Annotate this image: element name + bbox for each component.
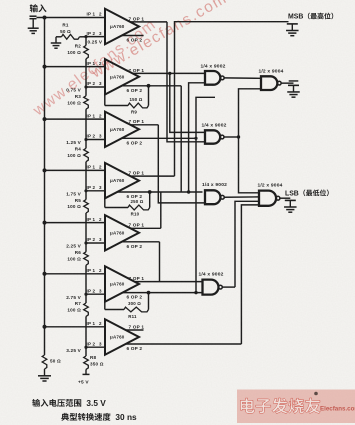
wire R8 to +5V	[85, 369, 87, 374]
node ladder tap U6	[84, 293, 87, 296]
wire V10 U2 OP1 branch down to G2 upper	[170, 73, 205, 132]
resistor R1 50Ω	[56, 36, 62, 38]
caption line 2	[61, 413, 69, 421]
node bus junction comparator U6	[43, 272, 47, 276]
node bus junction comparator U4	[43, 168, 47, 172]
wire ladder segment below R7	[85, 316, 87, 347]
wire U4 OP2 to gate G3	[117, 191, 202, 193]
node U2 OP2 junction R9	[147, 84, 151, 88]
node input bus junction	[43, 16, 47, 20]
wire ladder tap 1.25 V to U3 IP2	[86, 139, 105, 141]
wire G1 output to G5	[224, 77, 261, 79]
wire G3 output to G6	[224, 196, 259, 198]
wire ladder tap 1.75 V to U4 IP2	[86, 190, 105, 192]
resistor R2 100Ω	[84, 45, 89, 58]
wire V3 U3 OP1 down to G3 lower	[158, 125, 205, 203]
op-amp U4 μA760 comparator	[105, 163, 139, 198]
op-amp U2 μA760 comparator	[105, 59, 139, 94]
scan noise overlay	[0, 0, 1, 1]
terminal MSB with ground	[287, 23, 298, 25]
resistor R9 150Ω feedback U2	[148, 86, 150, 106]
wire G2 output to V12	[224, 136, 239, 138]
wire bus to U4 IP1	[45, 169, 106, 171]
caption line 1	[32, 399, 40, 407]
input terminal	[30, 15, 37, 17]
node ladder tap U7	[84, 346, 87, 349]
ground reference R1	[55, 37, 57, 43]
node ladder tap U1	[84, 35, 87, 38]
wire ladder tap 0.25 V to U1 IP2	[86, 36, 105, 38]
wire input to comparator U1 IP1	[37, 17, 106, 19]
wire ladder segment below R5	[85, 213, 87, 243]
wire bus to U3 IP1	[45, 118, 106, 120]
wire V9 U7 OP2 up to G6	[241, 205, 259, 344]
wire U3 OP1 output	[130, 124, 158, 126]
terminal output bit2 with ground	[289, 80, 299, 82]
node ladder tap U5	[84, 241, 87, 244]
node bus junction comparator U3	[43, 117, 47, 121]
wire bus to U5 IP1	[45, 222, 106, 224]
wire U3 OP2 output	[122, 137, 196, 139]
logic gate G5 1/2x9004	[261, 76, 277, 90]
watermark box 电子发烧友	[237, 390, 355, 424]
resistor R11 300Ω feedback U6	[148, 293, 150, 310]
resistor R8 350Ω	[84, 356, 89, 369]
wire G4 output to V11	[222, 286, 235, 288]
wire ladder segment above R3	[85, 87, 87, 96]
ground input termination	[38, 376, 51, 381]
resistor R6 100Ω	[84, 252, 89, 265]
wire ladder tap 2.25 V to U5 IP2	[86, 242, 105, 244]
resistor 50Ω input termination	[42, 355, 47, 369]
wire 50Ω to ground	[44, 369, 46, 376]
op-amp U3 μA760 comparator	[105, 112, 139, 147]
op-amp U6 μA760 comparator	[105, 266, 139, 301]
wire ladder segment above R4	[85, 140, 87, 149]
terminal LSB output with ground	[285, 199, 296, 201]
wire input bus vertical	[44, 18, 46, 356]
node ladder tap U3	[84, 138, 87, 141]
wire bus to U2 IP1	[45, 66, 106, 68]
node G2 output junction	[237, 135, 240, 138]
wire V8 upper elbow	[196, 97, 215, 292]
wire V4 U5 OP1 up to G3 upper	[160, 192, 162, 228]
wire ladder segment below R4	[85, 162, 87, 191]
node bus junction comparator U5	[43, 221, 47, 225]
wire V2 MSB riser from U4 OP1	[175, 22, 289, 176]
op-amp U7 μA760 comparator	[105, 319, 139, 354]
wire V6 U2 OP2 down to U4 OP2 net	[180, 86, 182, 192]
logic gate G1 1/4x9002	[205, 71, 220, 85]
resistor R4 100Ω	[84, 148, 89, 161]
wire U7 OP1 stub	[126, 329, 144, 331]
wire ladder tap 2.75 V to U6 IP2	[86, 293, 105, 295]
node U6 OP2 junction R11	[147, 291, 151, 295]
wire U2 OP2 output	[122, 85, 181, 87]
node bus junction comparator U2	[43, 65, 47, 69]
wire ladder segment below R6	[85, 265, 87, 294]
node ladder tap U2	[84, 85, 87, 88]
wire G6 output LSB	[280, 197, 290, 199]
wire U1 OP2 stub	[122, 35, 144, 37]
wire U6 OP2 to gate G4	[122, 292, 202, 294]
node ladder tap U4	[84, 189, 87, 192]
wire U2 OP1 to gate G1	[132, 72, 205, 74]
wire U7 OP2 to LSB gate	[126, 343, 242, 345]
wire ladder segment above R7	[85, 294, 87, 303]
wire V12 G5 input / G6 input riser	[239, 89, 262, 193]
wire V1 U1 OP1 down to G2	[167, 22, 205, 142]
resistor R3 100Ω	[84, 96, 89, 109]
wire U5 OP2 output	[122, 241, 160, 243]
node V8 junction U3 OP2	[194, 137, 197, 140]
wire ladder tap 3.25 V to U7 IP2	[86, 346, 105, 348]
node V8 junction	[194, 291, 197, 294]
wire ladder segment above R5	[85, 191, 87, 200]
logic gate G4 1/4x9002	[203, 280, 219, 295]
wire U4 OP1 to MSB	[130, 175, 174, 177]
wire U5 OP1 output	[130, 227, 160, 229]
op-amp U1 μA760 comparator	[105, 9, 139, 44]
logic gate G3 1/4x9002	[205, 190, 220, 204]
node bus junction comparator U7	[43, 325, 47, 329]
op-amp U5 μA760 comparator	[105, 215, 139, 250]
wire ladder segment above R2	[85, 37, 87, 46]
input ground	[32, 19, 34, 28]
input label 输入	[30, 4, 38, 12]
wire ladder tap 0.75 V to U2 IP2	[86, 86, 105, 88]
wire ladder segment above R6	[85, 243, 87, 252]
wire U1 OP1 output	[130, 21, 167, 23]
wire V7 G1 lower input down to U4 OP2 net	[189, 83, 205, 192]
node U4 OP2 junction R10	[148, 190, 152, 194]
wire ladder segment below R2	[85, 59, 87, 87]
resistor R10 250Ω feedback U4	[149, 192, 151, 208]
logic gate G6 1/2x9004	[259, 191, 276, 206]
wire U6 OP1 to gate G4	[134, 281, 202, 283]
wire bus to U6 IP1	[45, 273, 106, 275]
node V7 junction	[187, 190, 190, 193]
wire G5 output	[281, 82, 293, 84]
resistor R7 100Ω	[84, 303, 89, 316]
wire ladder segment below R3	[85, 109, 87, 139]
wire V11 G4 output up to G6	[235, 201, 259, 287]
wire bus to U7 IP1	[45, 326, 106, 328]
wire V5 U5 OP2 down to G4 upper	[159, 242, 161, 282]
wire ladder above R8	[85, 347, 87, 356]
node V10 junction on U2 OP1	[168, 72, 171, 75]
logic gate G2 1/4x9002	[205, 130, 220, 143]
resistor R5 100Ω	[84, 200, 89, 213]
